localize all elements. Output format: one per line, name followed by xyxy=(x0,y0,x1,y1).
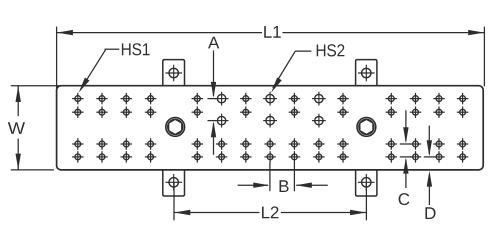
dimension A lower tick xyxy=(208,120,217,122)
top-right mounting tab xyxy=(356,60,377,87)
right hex nut boss xyxy=(357,118,376,137)
dimension W line and arrows xyxy=(16,86,21,170)
dimension D arrows xyxy=(427,126,433,205)
leader HS1 xyxy=(79,49,120,92)
dimension W extension line top xyxy=(11,85,62,87)
dimension L1 extension line right xyxy=(483,27,485,87)
dimension L1 extension line left xyxy=(56,27,58,88)
dimension B extension line left xyxy=(269,162,271,191)
dimension A arrows xyxy=(211,51,216,155)
left hex nut boss xyxy=(166,118,185,137)
terminal block body outline xyxy=(57,86,484,170)
hole grid: top-right cluster xyxy=(386,93,469,118)
dimension L2 extension line right xyxy=(365,183,367,220)
top-right tab hole xyxy=(358,65,375,82)
label L1 xyxy=(264,26,280,38)
dimension L1 line and arrows xyxy=(57,30,484,35)
dimension L2 line and arrows xyxy=(174,210,366,215)
big holes pair at column 318.9 xyxy=(312,92,326,128)
dimension D tick xyxy=(424,156,434,158)
dimension C upper tick xyxy=(400,143,411,145)
label HS1 xyxy=(122,43,150,55)
hole grid: top-middle cluster small holes xyxy=(192,93,349,118)
label D xyxy=(425,207,435,219)
dimension B extension line right xyxy=(293,162,295,191)
label W xyxy=(8,122,25,134)
label B xyxy=(280,180,289,192)
label C xyxy=(399,193,410,205)
bottom-left tab hole xyxy=(165,174,182,191)
leader HS2 xyxy=(271,51,311,93)
top-left mounting tab xyxy=(163,60,185,87)
big holes pair at column 270.1 (HS2 target) xyxy=(263,92,277,128)
dimension C arrows xyxy=(403,110,408,188)
bottom-right tab hole xyxy=(358,174,375,191)
hole grid: bottom rows all columns xyxy=(72,138,468,162)
bottom-left mounting tab xyxy=(163,169,185,196)
dimension L2 extension line left xyxy=(173,183,175,220)
dimension W extension line bottom xyxy=(11,169,54,171)
top-left tab hole xyxy=(165,65,182,82)
dimension A upper tick xyxy=(208,98,217,100)
label A xyxy=(208,37,219,49)
hole grid: top-left cluster xyxy=(72,93,156,118)
bottom-right mounting tab xyxy=(356,169,377,196)
big holes pair at column 221.6 xyxy=(215,92,229,128)
dimension B arrows xyxy=(238,183,328,188)
label L2 xyxy=(262,206,278,218)
dimension C lower tick xyxy=(400,156,411,158)
label HS2 xyxy=(317,44,345,56)
